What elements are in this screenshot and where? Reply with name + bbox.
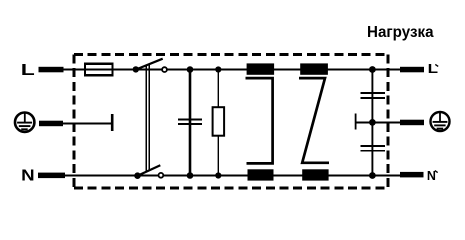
svg-text:N: N [427,169,436,183]
svg-text:L: L [21,62,35,79]
svg-text:N: N [21,168,35,185]
svg-text:Нагрузка: Нагрузка [367,24,434,41]
svg-text:L: L [428,62,439,76]
